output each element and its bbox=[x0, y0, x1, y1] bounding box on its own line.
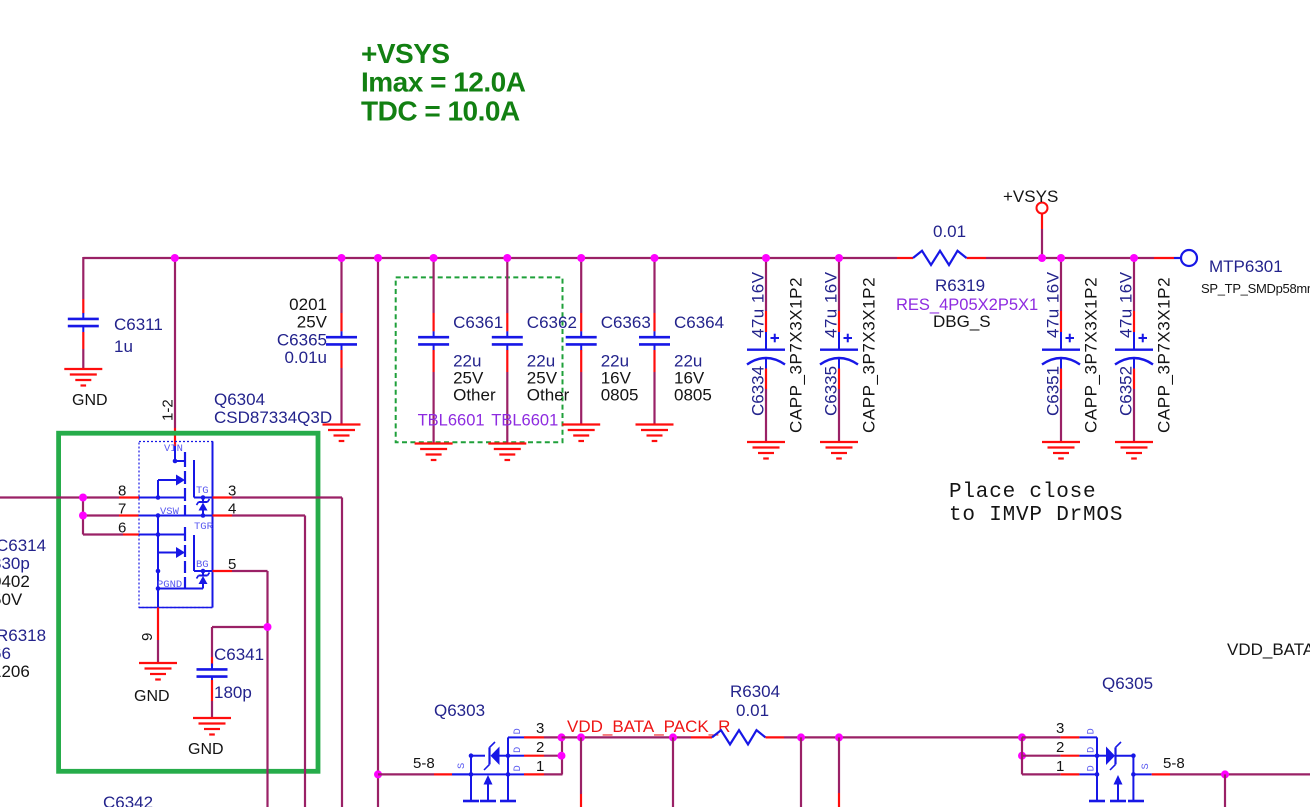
svg-text:DBG_S: DBG_S bbox=[933, 312, 991, 331]
value label TBL6601 (C6362) bbox=[491, 412, 558, 430]
wire C6361 branch bbox=[433, 258, 435, 331]
pin name S (Q6303, rotated) bbox=[456, 763, 468, 769]
value label TBL6601 (C6361) bbox=[418, 412, 485, 430]
svg-text:8: 8 bbox=[118, 483, 126, 500]
pin 3 stub bbox=[213, 496, 233, 498]
wire C6364 to ground bbox=[653, 350, 655, 425]
net label VDD_BATA (clipped) bbox=[1227, 640, 1310, 659]
capacitor C6365 bbox=[277, 295, 357, 367]
wire pin4 TGR net down bbox=[232, 516, 305, 807]
capacitor C6334 polarized bbox=[747, 271, 806, 433]
svg-text:2: 2 bbox=[1056, 739, 1064, 756]
wire pin5 BG net down to C6341 bbox=[212, 571, 272, 807]
svg-text:C6364: C6364 bbox=[674, 313, 724, 332]
svg-text:Other: Other bbox=[527, 386, 570, 405]
svg-text:7: 7 bbox=[118, 501, 126, 518]
wire TG row bbox=[194, 495, 213, 500]
ground GND below C6311 bbox=[64, 369, 102, 386]
label Q6304 CSD87334Q3D bbox=[214, 390, 332, 427]
pin stubs Q6303 right bbox=[508, 737, 544, 774]
pin name S (Q6305, rotated) bbox=[1140, 763, 1152, 769]
pin name TG bbox=[196, 485, 209, 497]
svg-text:0402: 0402 bbox=[0, 572, 30, 591]
svg-text:47u 16V: 47u 16V bbox=[1044, 271, 1063, 338]
transistor Q6305 symbol bbox=[1089, 737, 1144, 801]
wire drop x673 bbox=[672, 737, 674, 807]
node +VSYS port circle bbox=[1037, 203, 1048, 214]
diode BG-PGND schottky bbox=[197, 571, 210, 589]
label C6342 (clipped at bottom) bbox=[103, 793, 153, 807]
junction dots left of Q6304 bbox=[79, 494, 87, 520]
ground below C6334 bbox=[747, 442, 785, 459]
wire +VSYS horizontal bus bbox=[83, 257, 897, 259]
capacitor C6362 bbox=[492, 313, 577, 405]
svg-text:C6351: C6351 bbox=[1044, 366, 1063, 416]
svg-text:Q6304: Q6304 bbox=[214, 390, 265, 409]
wire pin8 row inside bbox=[139, 495, 185, 500]
ground below C6352 bbox=[1115, 442, 1153, 459]
transistor Q6303 symbol bbox=[452, 737, 524, 801]
pin labels 3 2 1 (Q6305) bbox=[1056, 720, 1064, 775]
ground label GND (C6311) bbox=[72, 392, 108, 409]
wire BG row bbox=[156, 569, 213, 574]
ground below C6335 bbox=[820, 442, 858, 459]
wire bus after R6319 to MTP6301 bbox=[967, 257, 1182, 259]
wire C6341 top bbox=[211, 627, 213, 666]
pin labels 8 7 6 bbox=[118, 483, 126, 537]
svg-text:0.01: 0.01 bbox=[933, 222, 966, 241]
svg-text:66: 66 bbox=[0, 644, 11, 663]
svg-text:Other: Other bbox=[453, 386, 496, 405]
svg-text:330p: 330p bbox=[0, 554, 30, 573]
pin stubs Q6305 left bbox=[1061, 737, 1097, 774]
svg-text:1206: 1206 bbox=[0, 662, 30, 681]
wire C6352 to ground bbox=[1133, 369, 1135, 443]
wire C6352 branch bbox=[1133, 258, 1135, 332]
wire C6351 to ground bbox=[1060, 369, 1062, 443]
svg-text:CAPP_3P7X3X1P2: CAPP_3P7X3X1P2 bbox=[1155, 277, 1174, 433]
svg-text:GND: GND bbox=[134, 688, 170, 705]
wire C6362 to ground bbox=[506, 350, 508, 444]
svg-text:TBL6601: TBL6601 bbox=[491, 412, 558, 430]
pin labels 3 2 1 (Q6303) bbox=[536, 720, 544, 775]
svg-text:1u: 1u bbox=[114, 337, 133, 356]
value 0402 (clipped) bbox=[0, 572, 30, 591]
svg-text:180p: 180p bbox=[214, 683, 252, 702]
svg-text:VDD_BATA: VDD_BATA bbox=[1227, 640, 1310, 659]
wire C6364 branch bbox=[653, 258, 655, 331]
wire 5-8 right (Q6305) bbox=[1133, 773, 1310, 775]
svg-text:Imax = 12.0A: Imax = 12.0A bbox=[361, 67, 526, 98]
wire long vertical bus to Q6303 5-8 bbox=[377, 258, 379, 807]
svg-text:TBL6601: TBL6601 bbox=[418, 412, 485, 430]
ground below C6364 bbox=[636, 425, 674, 442]
wire PGND row bbox=[156, 586, 203, 591]
svg-text:3: 3 bbox=[1056, 720, 1064, 737]
transistor Q6304 package outline bbox=[139, 442, 213, 608]
svg-text:SP_TP_SMDp58mm: SP_TP_SMDp58mm bbox=[1201, 281, 1310, 296]
svg-text:C6363: C6363 bbox=[601, 313, 651, 332]
svg-text:2: 2 bbox=[536, 739, 544, 756]
svg-text:Q6303: Q6303 bbox=[434, 701, 485, 720]
svg-text:C6334: C6334 bbox=[749, 366, 768, 416]
wire pin9 stub to ground bbox=[157, 589, 159, 664]
value 1206 (clipped) bbox=[0, 662, 30, 681]
svg-text:1: 1 bbox=[1056, 758, 1064, 775]
svg-text:50V: 50V bbox=[0, 590, 23, 609]
wire VDD_BATA_PACK_R row bbox=[562, 736, 713, 738]
label R6318 (clipped) bbox=[0, 626, 46, 645]
wire C6335 to ground bbox=[838, 369, 840, 443]
svg-text:TG: TG bbox=[196, 485, 209, 497]
svg-text:D: D bbox=[1086, 728, 1098, 734]
ground below C6341 bbox=[193, 718, 231, 735]
pin label 5-8 (Q6305) bbox=[1163, 755, 1185, 772]
wire C6335 branch bbox=[838, 258, 840, 332]
label Q6305 bbox=[1102, 674, 1153, 693]
svg-text:GND: GND bbox=[188, 741, 224, 758]
svg-text:TDC = 10.0A: TDC = 10.0A bbox=[361, 96, 520, 127]
value 50V (clipped) bbox=[0, 590, 23, 609]
svg-text:VDD_BATA_PACK_R: VDD_BATA_PACK_R bbox=[567, 717, 730, 736]
net label VDD_BATA_PACK_R bbox=[567, 717, 730, 736]
capacitor C6311 bbox=[68, 313, 163, 356]
svg-text:25V: 25V bbox=[297, 313, 328, 332]
svg-text:0201: 0201 bbox=[289, 295, 327, 314]
svg-text:5-8: 5-8 bbox=[413, 755, 435, 772]
wire left net to pin 8 bbox=[0, 496, 139, 498]
svg-text:47u 16V: 47u 16V bbox=[1117, 271, 1136, 338]
wire drop x839 bbox=[838, 737, 840, 807]
net label +VSYS bbox=[1003, 187, 1058, 206]
svg-text:5-8: 5-8 bbox=[1163, 755, 1185, 772]
ground below pin 9 bbox=[139, 663, 177, 680]
annotation dashed green box TBL6601 group bbox=[396, 277, 563, 442]
svg-text:to IMVP DrMOS: to IMVP DrMOS bbox=[949, 504, 1123, 527]
svg-text:C6361: C6361 bbox=[453, 313, 503, 332]
svg-text:MTP6301: MTP6301 bbox=[1209, 257, 1283, 276]
svg-text:1-2: 1-2 bbox=[160, 399, 177, 421]
svg-text:R6304: R6304 bbox=[730, 682, 780, 701]
pin 4 stub bbox=[213, 514, 233, 516]
pin labels 3 4 5 bbox=[228, 483, 236, 574]
pin name TGR bbox=[194, 521, 214, 533]
svg-text:0805: 0805 bbox=[674, 386, 712, 405]
wire C6363 to ground bbox=[580, 350, 582, 425]
wire C6351 branch bbox=[1060, 258, 1062, 332]
value 330p (clipped) bbox=[0, 554, 30, 573]
svg-text:R6319: R6319 bbox=[935, 276, 985, 295]
capacitor C6363 bbox=[566, 313, 651, 405]
node +VSYS title text bbox=[361, 38, 526, 127]
ground below C6351 bbox=[1042, 442, 1080, 459]
svg-text:C6365: C6365 bbox=[277, 331, 327, 350]
svg-text:0.01: 0.01 bbox=[736, 701, 769, 720]
wire C6311 to ground bbox=[82, 332, 84, 369]
svg-text:1: 1 bbox=[536, 758, 544, 775]
svg-text:GND: GND bbox=[72, 392, 108, 409]
value label DBG_S bbox=[933, 312, 991, 331]
pin name VIN bbox=[164, 443, 183, 455]
wire C6361 to ground bbox=[433, 350, 435, 444]
svg-text:Place close: Place close bbox=[949, 481, 1096, 504]
svg-text:47u 16V: 47u 16V bbox=[749, 271, 768, 338]
capacitor C6351 polarized bbox=[1042, 271, 1101, 433]
svg-text:CAPP_3P7X3X1P2: CAPP_3P7X3X1P2 bbox=[860, 277, 879, 433]
wire C6365 to ground bbox=[340, 350, 342, 425]
svg-text:Q6305: Q6305 bbox=[1102, 674, 1153, 693]
capacitor C6352 polarized bbox=[1115, 271, 1174, 433]
Q6304 high-side FET bbox=[158, 446, 194, 516]
svg-text:C6311: C6311 bbox=[114, 315, 163, 334]
junction dots on +VSYS bus bbox=[171, 254, 1138, 262]
wire drop x581 bbox=[580, 737, 582, 807]
svg-text:C6341: C6341 bbox=[214, 645, 264, 664]
pin name PGND bbox=[157, 579, 182, 591]
svg-text:C6352: C6352 bbox=[1117, 366, 1136, 416]
svg-text:D: D bbox=[512, 747, 524, 753]
resistor R6319 bbox=[913, 222, 985, 295]
wire C6341 to ground bbox=[211, 680, 213, 718]
wire after R6304 bbox=[766, 736, 1023, 738]
note Place close to IMVP DrMOS bbox=[949, 481, 1123, 527]
capacitor C6341 bbox=[197, 645, 265, 702]
pin label 1-2 (rotated) bbox=[160, 399, 177, 421]
pin name BG bbox=[196, 559, 209, 571]
wire C6362 branch bbox=[506, 258, 508, 331]
value label SP_TP_SMDp58mm bbox=[1201, 281, 1310, 296]
wire VSW row bbox=[139, 513, 213, 518]
wire VIN branch pins 1-2 bbox=[174, 258, 176, 446]
svg-text:C6335: C6335 bbox=[822, 366, 841, 416]
wire C6334 branch bbox=[765, 258, 767, 332]
wire junction drop pin7 bbox=[83, 498, 139, 516]
svg-text:D: D bbox=[512, 728, 524, 734]
svg-text:9: 9 bbox=[139, 633, 156, 641]
pin names D D D (Q6303, rotated) bbox=[512, 728, 524, 771]
svg-text:S: S bbox=[1140, 763, 1152, 769]
capacitor C6361 bbox=[418, 313, 503, 405]
pin label 9 (rotated) bbox=[139, 633, 156, 641]
ground below C6361 bbox=[415, 444, 453, 461]
wire C6363 branch bbox=[580, 258, 582, 331]
svg-text:S: S bbox=[456, 763, 468, 769]
value 866 (clipped) bbox=[0, 644, 11, 663]
junction dots on VDD row bbox=[577, 733, 843, 741]
svg-text:D: D bbox=[1086, 765, 1098, 771]
pin name VSW bbox=[160, 506, 180, 518]
wire drop x801 bbox=[800, 737, 802, 807]
Q6304 low-side FET bbox=[158, 516, 194, 589]
diode TG-TGR schottky bbox=[197, 498, 210, 516]
wire Q6303 pins 1,2,3 tie bbox=[544, 733, 566, 774]
wire pin3 TG net down bbox=[232, 498, 342, 807]
svg-text:VIN: VIN bbox=[164, 443, 183, 455]
capacitor C6364 bbox=[639, 313, 724, 405]
testpoint MTP6301 circle bbox=[1181, 250, 1197, 266]
svg-text:0.01u: 0.01u bbox=[284, 348, 327, 367]
ground below C6362 bbox=[488, 444, 526, 461]
wire 5-8 left stub bbox=[378, 773, 471, 775]
wire +VSYS port stub bbox=[1041, 214, 1043, 259]
svg-text:6: 6 bbox=[118, 520, 126, 537]
svg-text:C6342: C6342 bbox=[103, 793, 153, 807]
svg-text:D: D bbox=[512, 765, 524, 771]
svg-text:47u 16V: 47u 16V bbox=[822, 271, 841, 338]
capacitor C6335 polarized bbox=[820, 271, 879, 433]
ground below C6363 bbox=[562, 425, 600, 442]
svg-text:CAPP_3P7X3X1P2: CAPP_3P7X3X1P2 bbox=[787, 277, 806, 433]
pin 5 stub bbox=[213, 570, 233, 572]
wire C6334 to ground bbox=[765, 369, 767, 443]
wire bus red stub before R6319 bbox=[897, 257, 913, 259]
pin names D D D (Q6305, rotated) bbox=[1086, 728, 1098, 771]
label Q6303 bbox=[434, 701, 485, 720]
junction dot 5-8 tap bbox=[374, 770, 382, 778]
svg-text:3: 3 bbox=[536, 720, 544, 737]
wire pin6 row inside bbox=[139, 532, 185, 537]
label MTP6301 bbox=[1209, 257, 1283, 276]
svg-text:D: D bbox=[1086, 747, 1098, 753]
svg-text:C6314: C6314 bbox=[0, 536, 46, 555]
svg-text:+VSYS: +VSYS bbox=[361, 38, 450, 69]
ground label GND (C6341) bbox=[188, 741, 224, 758]
ground below C6365 bbox=[323, 425, 361, 442]
annotation solid green box around Q6304 bbox=[59, 433, 318, 771]
wire C6311 branch from bus corner bbox=[82, 257, 84, 313]
svg-text:R6318: R6318 bbox=[0, 626, 46, 645]
wire Q6305 pins tie bbox=[1018, 733, 1061, 774]
wire junction drop pin6 bbox=[83, 516, 139, 535]
junction dot and drop right bbox=[1221, 770, 1229, 807]
wire C6365 branch bbox=[340, 258, 342, 331]
svg-text:+VSYS: +VSYS bbox=[1003, 187, 1058, 206]
ground label GND (pin9) bbox=[134, 688, 170, 705]
svg-text:CSD87334Q3D: CSD87334Q3D bbox=[214, 408, 332, 427]
value label RES_4P05X2P5X1 bbox=[896, 296, 1038, 314]
svg-text:C6362: C6362 bbox=[527, 313, 577, 332]
label C6314 (clipped) bbox=[0, 536, 46, 555]
svg-text:TGR: TGR bbox=[194, 521, 214, 533]
svg-text:0805: 0805 bbox=[601, 386, 639, 405]
pin label 5-8 (Q6303) bbox=[413, 755, 435, 772]
svg-text:CAPP_3P7X3X1P2: CAPP_3P7X3X1P2 bbox=[1082, 277, 1101, 433]
resistor R6304 bbox=[712, 682, 780, 744]
